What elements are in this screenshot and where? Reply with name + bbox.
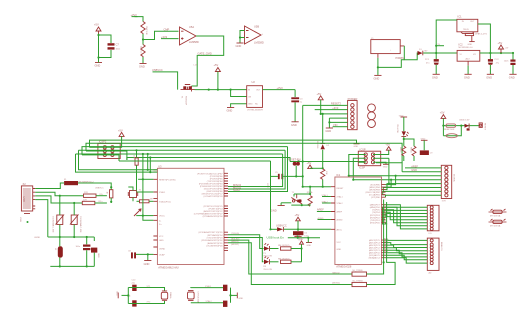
- svg-text:CM06 3.3V: CM06 3.3V: [459, 119, 470, 121]
- wire ICSP SCK: [353, 158, 365, 179]
- svg-text:MF-MSMF050-2: MF-MSMF050-2: [79, 182, 95, 184]
- svg-text:XTAL2: XTAL2: [206, 300, 213, 303]
- svg-text:GND: GND: [227, 109, 233, 113]
- mounting hole MH2: [368, 112, 376, 120]
- svg-text:RESET-EN: RESET-EN: [288, 158, 301, 162]
- svg-text:GND: GND: [271, 209, 277, 213]
- svg-text:1N4148: 1N4148: [316, 141, 318, 149]
- LED RX yellow: [263, 257, 272, 271]
- svg-text:XTAL2: XTAL2: [322, 200, 329, 203]
- capacitor C10 22p: [132, 280, 137, 292]
- mounting hole MH1: [368, 104, 376, 112]
- svg-text:UVCC: UVCC: [159, 216, 165, 218]
- diode D2 reset protect: [316, 113, 330, 169]
- wires SPI rows right of U3: [228, 147, 288, 193]
- wire jumper to C5 row: [295, 166, 297, 177]
- svg-text:+5V: +5V: [440, 111, 445, 115]
- resonator Q2 CSTCE16M: [188, 291, 199, 303]
- svg-text:+5V: +5V: [307, 161, 312, 165]
- supply +5V symbol: [307, 161, 323, 169]
- jumper resistor RESET-EN: [444, 124, 456, 131]
- svg-text:GND: GND: [144, 262, 150, 266]
- svg-text:(ADC3)PC3: (ADC3)PC3: [369, 244, 381, 247]
- resistor R4: [401, 146, 403, 157]
- svg-text:NC: NC: [255, 104, 259, 106]
- pushbutton RESET: [291, 192, 302, 204]
- svg-text:YELLOW: YELLOW: [396, 124, 398, 133]
- svg-text:PWRIN: PWRIN: [396, 56, 405, 60]
- svg-text:ANALOG: ANALOG: [440, 242, 443, 251]
- capacitor C11 22p: [127, 296, 137, 307]
- wire +5V to header: [321, 113, 348, 115]
- label GND: [397, 114, 399, 116]
- wire ICSP MOSI pin4: [373, 157, 389, 159]
- svg-text:GND: GND: [337, 249, 342, 251]
- capacitor C5 100n: [275, 172, 283, 179]
- wire xtal2 via resistor: [137, 200, 140, 202]
- wire IO8 to IOH: [386, 195, 442, 197]
- IC ATMEGA8U2: [157, 164, 224, 269]
- pins ATMEGA328 right bottom group: [382, 240, 386, 258]
- svg-text:OUT: OUT: [470, 21, 475, 23]
- capacitor C8 1u: [128, 251, 136, 259]
- svg-text:NM 1K(2E2): NM 1K(2E2): [278, 245, 290, 247]
- svg-text:ATMEGA8U2-MU: ATMEGA8U2-MU: [158, 266, 179, 270]
- wire IC1 input: [436, 20, 457, 53]
- svg-text:RESET2: RESET2: [331, 102, 342, 106]
- wire RESET net: [303, 186, 331, 188]
- svg-text:GND: GND: [486, 75, 492, 79]
- svg-text:(SDA)ADC4: (SDA)ADC4: [369, 257, 381, 260]
- ground: [509, 74, 517, 79]
- wire GATE_CMD: [192, 36, 224, 86]
- wire: [404, 139, 414, 146]
- svg-text:RESET: RESET: [484, 123, 486, 131]
- svg-text:VO: VO: [473, 54, 476, 56]
- ground: [236, 43, 244, 48]
- wire PWRIN: [404, 46, 417, 60]
- solder jumper SJ1: [295, 233, 301, 238]
- wire button/resistor top: [293, 194, 295, 197]
- wire pin stub: [138, 178, 153, 180]
- wire D-: [35, 192, 83, 196]
- ground: [227, 108, 235, 113]
- ground: [294, 236, 303, 240]
- svg-text:VCC: VCC: [337, 242, 342, 244]
- wire TXLED: [228, 235, 264, 249]
- svg-text:YELLOW: YELLOW: [263, 269, 272, 271]
- wire bus A into icsp2: [90, 146, 113, 148]
- connector POWER header: [348, 97, 358, 130]
- svg-text:XTAL1: XTAL1: [205, 285, 212, 288]
- wire RESET line to ICSP: [290, 161, 366, 163]
- wire +3V3: [315, 109, 348, 111]
- svg-text:1M: 1M: [150, 198, 153, 200]
- resistor R2 1K (pullup near 16U2): [106, 183, 113, 203]
- svg-text:(RXD)PD0: (RXD)PD0: [370, 222, 381, 224]
- varistor Z2: [70, 203, 81, 237]
- svg-text:U3: U3: [158, 164, 162, 168]
- wire jumper row: [288, 237, 320, 239]
- svg-text:GND: GND: [248, 104, 253, 106]
- wire drop to U3 pin1: [147, 154, 149, 170]
- svg-text:M7 50V/1A: M7 50V/1A: [490, 215, 501, 218]
- svg-text:DIGITAL: DIGITAL: [453, 174, 456, 183]
- label USBVCC: [152, 68, 178, 90]
- diode CM1213: [459, 119, 470, 130]
- wire: [142, 57, 144, 64]
- svg-text:MC33269D-5.0: MC33269D-5.0: [459, 47, 474, 49]
- svg-text:AGND: AGND: [318, 217, 325, 220]
- diode D1 M7: [418, 49, 429, 56]
- wire AREF to IOH: [405, 164, 441, 168]
- node junction: [97, 56, 99, 58]
- wire: [135, 17, 144, 22]
- wire bus G short (DTR): [119, 160, 271, 162]
- svg-text:(OC1A/PCINT8)PC6: (OC1A/PCINT8)PC6: [203, 195, 223, 198]
- wires AD staircase: [386, 239, 428, 241]
- svg-text:(MISO2): (MISO2): [332, 272, 340, 274]
- capacitor PC2 47u: [488, 53, 500, 74]
- svg-text:(INT5/AIN3)PD4: (INT5/AIN3)PD4: [207, 234, 223, 237]
- wire bus D: [79, 150, 158, 170]
- wire: [270, 261, 279, 263]
- wire xtal bottom: [128, 301, 164, 304]
- wire drain-source rail: [195, 89, 247, 91]
- resistor RN3B 22R: [82, 200, 107, 205]
- wire D+: [35, 196, 82, 203]
- svg-text:DPAK 4-DT5: DPAK 4-DT5: [475, 33, 488, 36]
- svg-text:+5V: +5V: [214, 63, 219, 67]
- svg-text:FDN340P: FDN340P: [185, 96, 187, 106]
- op-amp U5A LM358D: [180, 25, 199, 45]
- pin name text rows (right aligned inside box): [197, 172, 223, 198]
- svg-text:(MOSI2): (MOSI2): [231, 244, 239, 246]
- ground: [432, 74, 440, 79]
- svg-text:RD-: RD-: [100, 194, 104, 196]
- wire xtal1: [191, 287, 225, 289]
- supply +5V symbol: [440, 111, 446, 136]
- jumper RESET-EN: [288, 158, 301, 166]
- svg-text:AREF: AREF: [337, 211, 343, 214]
- resistor R1 1M: [140, 198, 154, 203]
- capacitor PC1 47u: [425, 53, 439, 74]
- test point TP1: [489, 209, 507, 218]
- svg-text:XTAL1: XTAL1: [337, 196, 344, 199]
- IC ATMEGA328: [335, 173, 382, 268]
- resistor RN1B 10K pullup: [321, 169, 327, 187]
- resistor RN1A: [307, 191, 313, 206]
- wire: [378, 60, 404, 68]
- label AREF: [317, 207, 331, 211]
- wire CMP: [143, 31, 179, 39]
- svg-text:GND: GND: [325, 129, 331, 133]
- wire UGND rail: [48, 236, 95, 238]
- ground: [139, 64, 147, 69]
- resistor RZ2: [140, 45, 146, 58]
- capacitor C7 100n: [108, 43, 121, 51]
- svg-text:10K: 10K: [325, 171, 327, 175]
- pins ATMEGA8U2 left: [153, 170, 157, 255]
- capacitor C13: [223, 301, 227, 307]
- svg-text:NL_TRIM0: NL_TRIM0: [353, 270, 364, 272]
- resistor R3 10K (to XTAL1): [133, 149, 139, 190]
- svg-text:NL_TRIM4: NL_TRIM4: [353, 281, 364, 283]
- resistor RN2C: [399, 146, 406, 161]
- connector AD: [427, 238, 443, 274]
- wire IC1 output: [478, 24, 491, 53]
- wire AGND: [318, 217, 331, 220]
- svg-text:GND: GND: [95, 64, 101, 68]
- svg-text:CMP: CMP: [164, 28, 170, 32]
- wire IO10 to IOH: [383, 188, 441, 193]
- svg-text:M7 50V/1A: M7 50V/1A: [490, 225, 501, 228]
- wire icsp2 pin6: [112, 155, 119, 161]
- svg-text:(RTS/AIN5/INT6)PD6: (RTS/AIN5/INT6)PD6: [203, 215, 224, 218]
- wire bus B: [86, 143, 402, 162]
- crystal Y1 16MHz: [128, 189, 142, 197]
- svg-text:(XCK/AIN4/PCINT12)PD5: (XCK/AIN4/PCINT12)PD5: [198, 231, 223, 234]
- svg-text:RESET: RESET: [337, 188, 345, 190]
- ground: [374, 75, 382, 80]
- wire icsp2 pin4: [112, 151, 127, 160]
- ground: [91, 237, 99, 266]
- wire xtal1: [137, 191, 154, 193]
- ground: [95, 63, 103, 68]
- svg-text:ADJ: ADJ: [466, 58, 470, 61]
- svg-text:GND: GND: [468, 44, 473, 46]
- wire U5B inputs: [240, 31, 245, 44]
- svg-text:XTAL: XTAL: [19, 217, 22, 223]
- svg-text:NM 1K(2E2): NM 1K(2E2): [278, 258, 290, 260]
- wire bottom loop: [443, 126, 461, 136]
- wire MISO to IOH: [386, 180, 392, 187]
- svg-text:UGND: UGND: [159, 248, 166, 250]
- svg-text:XTAL2: XTAL2: [337, 202, 344, 205]
- svg-text:C7: C7: [116, 43, 120, 47]
- svg-text:GND: GND: [139, 65, 145, 69]
- svg-text:ATMEGA328: ATMEGA328: [336, 264, 352, 268]
- ground shield: [19, 214, 30, 224]
- wire: [136, 215, 144, 217]
- svg-text:XTAL1: XTAL1: [322, 194, 329, 197]
- wire: [284, 228, 331, 230]
- ground: [291, 122, 299, 127]
- resistor (oval): [446, 134, 457, 138]
- regulator U2 LP2985-33DBVR: [247, 80, 264, 112]
- capacitor C1 100n: [76, 237, 91, 266]
- wire UCAP: [136, 253, 153, 255]
- varistor Z1: [52, 196, 65, 237]
- wire: [144, 215, 154, 217]
- wire +3V3 stub: [161, 38, 179, 40]
- svg-text:GND: GND: [354, 146, 359, 148]
- supply +5V symbol: [317, 92, 324, 114]
- op-amp U5B LM358D: [245, 25, 265, 45]
- pins ATMEGA328 right top group PB: [382, 185, 386, 223]
- svg-text:+5V: +5V: [498, 41, 503, 45]
- wire right tie: [230, 288, 232, 303]
- svg-text:AREF: AREF: [411, 164, 418, 168]
- test point RESET: [479, 123, 485, 131]
- svg-text:(PCINT7/OC0A/OC1C)PB7: (PCINT7/OC0A/OC1C)PB7: [197, 172, 223, 175]
- label 5V stub: [435, 44, 444, 47]
- resistor RN2D: [409, 146, 416, 161]
- svg-text:CSTCE16M: CSTCE16M: [197, 292, 199, 303]
- wire RXLED: [228, 238, 264, 262]
- svg-text:(ICP)PB0: (ICP)PB0: [371, 197, 381, 199]
- transistor T1 FDN340P: [181, 85, 195, 106]
- wire AVCC: [271, 228, 278, 230]
- svg-text:OUT: OUT: [256, 90, 261, 92]
- ground: [325, 128, 333, 133]
- svg-text:GND: GND: [383, 167, 388, 169]
- svg-text:USB: USB: [22, 197, 26, 203]
- capacitor C6 100n: [293, 229, 310, 237]
- svg-text:POWER: POWER: [348, 97, 358, 101]
- wire ICSP MISO: [349, 155, 366, 176]
- wire RESET2: [303, 104, 348, 106]
- svg-text:LM358D: LM358D: [254, 41, 264, 45]
- wire drop to U3 pin2: [149, 158, 151, 173]
- pin name text rows right column: [365, 185, 380, 225]
- svg-text:GND: GND: [421, 139, 426, 141]
- svg-text:IC1: IC1: [336, 173, 341, 177]
- svg-text:X2: X2: [23, 182, 27, 186]
- regulator IC1 (top, IN/OUT with tab): [457, 15, 478, 36]
- svg-text:RESET-EN: RESET-EN: [444, 129, 455, 131]
- svg-text:D-: D-: [159, 220, 162, 222]
- capacitor C4 100n: [504, 52, 516, 74]
- ground + capacitor C9: [420, 139, 434, 163]
- ground: [271, 206, 285, 213]
- svg-text:ICSP: ICSP: [360, 147, 366, 151]
- ground small: [306, 238, 312, 247]
- svg-text:GND: GND: [307, 245, 312, 247]
- fuse F1 MF-MSMF050-2: [64, 179, 107, 185]
- wire IO9 to IOH: [383, 191, 442, 194]
- svg-text:LM358D: LM358D: [189, 40, 199, 44]
- wire: [143, 154, 154, 220]
- wire IC2 gnd: [467, 66, 469, 75]
- svg-text:VCC: VCC: [159, 236, 164, 238]
- svg-text:ON: ON: [248, 97, 252, 99]
- wire crystal left loop: [128, 187, 133, 191]
- ferrite/diode on AVCC: [276, 223, 287, 231]
- svg-text:(AIN0/INT1)PD1: (AIN0/INT1)PD1: [207, 242, 223, 245]
- LED TX yellow: [263, 243, 272, 257]
- svg-text:AVCC: AVCC: [337, 228, 343, 231]
- svg-text:IOH: IOH: [442, 201, 446, 203]
- ground: [464, 74, 472, 79]
- wire VIN rail: [423, 52, 457, 54]
- svg-text:U5A: U5A: [189, 25, 194, 29]
- svg-text:(MOSI2): (MOSI2): [332, 283, 340, 285]
- ground top: [399, 115, 407, 117]
- svg-text:(RXD1/AIN1/INT2)PD2: (RXD1/AIN1/INT2)PD2: [201, 239, 223, 242]
- supply +5V symbol: [214, 63, 221, 89]
- supply +5V symbol: [498, 41, 509, 53]
- trimmer arrow: [134, 209, 141, 216]
- svg-text:IC1: IC1: [458, 15, 463, 19]
- capacitor C12: [223, 285, 227, 291]
- svg-text:GND: GND: [236, 44, 242, 48]
- svg-text:USB boot En: USB boot En: [267, 235, 285, 239]
- connector ICSP2: [98, 140, 120, 159]
- wire bus A: [90, 140, 341, 147]
- svg-text:22R: 22R: [83, 200, 87, 202]
- pins ATMEGA328 left: [331, 187, 335, 230]
- svg-text:(TXLED): (TXLED): [231, 233, 239, 235]
- ground: [144, 254, 152, 265]
- svg-text:10K: 10K: [133, 155, 135, 159]
- supply +5V symbol: [295, 213, 301, 229]
- svg-text:+5V: +5V: [295, 213, 300, 217]
- svg-text:IC2: IC2: [459, 42, 464, 46]
- inductor L1 BLM21: [54, 237, 63, 266]
- wire SCK to IOH: [386, 176, 396, 185]
- wire bus C: [82, 147, 288, 155]
- supply +5V small: [298, 240, 303, 262]
- wire left tie: [127, 288, 129, 304]
- wire VUSB: [35, 183, 64, 189]
- svg-text:+5V: +5V: [505, 48, 509, 50]
- wire ICSP RESET pin5: [358, 161, 365, 163]
- svg-text:GND: GND: [159, 240, 164, 242]
- pins ATMEGA8U2 right: [224, 173, 228, 250]
- node junction: [142, 38, 144, 40]
- ground: [116, 291, 129, 298]
- wire jack ground: [377, 58, 379, 76]
- test point TP2: [489, 219, 507, 228]
- ground: [231, 293, 244, 300]
- svg-text:CG0603MLC-05E: CG0603MLC-05E: [52, 216, 54, 233]
- svg-text:RESET(PC1/DW): RESET(PC1/DW): [159, 179, 176, 181]
- LED L yellow: [396, 124, 409, 136]
- node junction: [230, 89, 232, 91]
- svg-text:+3V3: +3V3: [277, 86, 284, 90]
- svg-text:1M RZ2: 1M RZ2: [140, 46, 142, 54]
- svg-text:VIN: VIN: [333, 123, 337, 127]
- svg-text:ICSP: ICSP: [359, 166, 365, 170]
- connector IOH: [441, 165, 455, 202]
- svg-text:XTAL1: XTAL1: [159, 191, 166, 194]
- supply +5V symbol: [373, 143, 391, 155]
- svg-text:16MHz: 16MHz: [169, 292, 171, 299]
- wire: [403, 117, 405, 131]
- wire MISO2: [228, 240, 352, 274]
- svg-text:U2: U2: [252, 80, 256, 84]
- connector X1 power jack: [371, 38, 405, 58]
- supply +5V symbol: [112, 128, 124, 147]
- node junction: [97, 34, 99, 36]
- svg-text:(OC0B/INT0)PD0: (OC0B/INT0)PD0: [206, 245, 223, 247]
- svg-text:RN2D: RN2D: [409, 147, 411, 153]
- wire bus B into icsp2: [86, 150, 112, 152]
- svg-text:RN2C: RN2C: [399, 147, 401, 153]
- node junction: [217, 89, 219, 91]
- resistor RN2A 1K: [278, 258, 302, 263]
- svg-text:GATE_CMD: GATE_CMD: [198, 52, 212, 56]
- svg-text:GND: GND: [432, 75, 438, 79]
- svg-text:+3V3: +3V3: [161, 35, 168, 39]
- resistor RN2B 1K: [278, 245, 302, 250]
- svg-text:GND: GND: [411, 168, 417, 172]
- connector IOL: [427, 205, 439, 235]
- wire VIN: [333, 126, 348, 128]
- svg-text:CMP 10K: CMP 10K: [145, 26, 147, 35]
- wire DTR vertical: [270, 161, 272, 229]
